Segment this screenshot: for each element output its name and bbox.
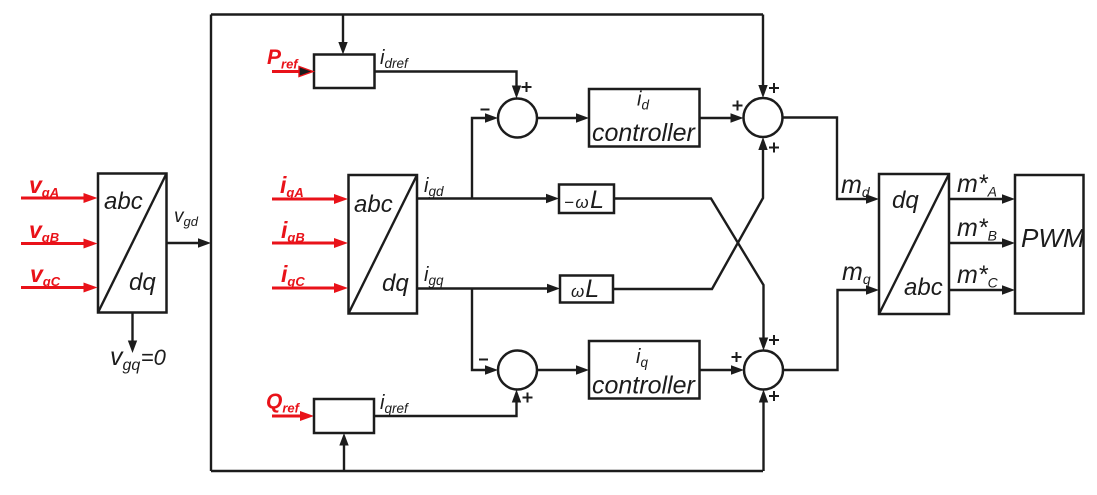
label: plus at d-output summer top <box>769 83 779 93</box>
wire: vgd feedforward loop bottom edge <box>211 470 763 472</box>
summer: d-axis output junction <box>744 98 783 137</box>
wire: vgd output into loop <box>167 238 212 247</box>
svg-text:dq: dq <box>892 187 919 214</box>
svg-text:PWM: PWM <box>1021 223 1085 253</box>
label: mq <box>842 258 871 287</box>
input Pref (red) <box>272 67 313 77</box>
wire: vgq output stub <box>128 313 137 354</box>
wire: vgd tap down into Pref divider <box>338 15 347 55</box>
label: dq (middle transform) <box>382 270 409 297</box>
wire: igq feedback branch into q-error summer <box>472 289 498 375</box>
wire: d-error summer to id controller <box>537 113 589 122</box>
input vgB (red) <box>21 239 98 249</box>
label: plus at d-error summer top <box>522 82 532 92</box>
summer: d-axis error junction <box>498 99 537 138</box>
label: PWM <box>1021 223 1085 253</box>
label: m*A <box>957 170 997 200</box>
label: plus at d-output summer left <box>733 101 743 111</box>
svg-text:controller: controller <box>592 372 696 400</box>
label: iqref <box>380 392 409 416</box>
label: vgd <box>174 206 199 229</box>
block: Qref divider <box>314 399 374 433</box>
wire: m*A to PWM <box>949 194 1015 203</box>
label: vgB <box>29 217 59 245</box>
label: m*C <box>957 261 999 291</box>
block: wL cross coupling <box>560 276 613 303</box>
wire: igq to wL block <box>417 284 560 293</box>
label: controller (d) <box>592 119 696 147</box>
svg-text:abc: abc <box>104 188 143 215</box>
label: Qref <box>266 390 301 416</box>
label: igq <box>424 264 444 288</box>
svg-text:dq: dq <box>129 269 156 296</box>
wire: wL output cross up to d-output summer <box>613 137 768 289</box>
wire: q-output summer to mq input of dq/abc <box>783 285 879 370</box>
svg-text:dq: dq <box>382 270 409 297</box>
input vgC (red) <box>21 283 98 293</box>
label: -wL <box>564 186 606 214</box>
wire: m*B to PWM <box>949 238 1015 247</box>
input igC (red) <box>272 283 348 293</box>
label: abc (left transform) <box>104 188 143 215</box>
block: left abc/dq transform <box>98 174 167 313</box>
block: PWM <box>1015 175 1084 314</box>
label: plus at q-output summer left <box>732 352 742 362</box>
wire: iqref to q-error summer <box>374 390 521 417</box>
label: igA <box>280 172 304 200</box>
wire: q-error summer to iq controller <box>537 365 589 374</box>
label: abc (middle transform) <box>354 191 393 218</box>
svg-text:abc: abc <box>904 274 943 301</box>
label: vgq=0 <box>110 343 167 374</box>
label: plus at d-output summer bottom <box>769 143 779 153</box>
wire: m*C to PWM <box>949 285 1015 294</box>
label: idref <box>380 47 409 71</box>
label: minus at d-error summer left <box>481 109 490 111</box>
label: dq (right transform) <box>892 187 919 214</box>
block: id controller <box>589 89 700 147</box>
input vgA (red) <box>21 193 98 203</box>
label: Pref <box>267 46 299 72</box>
label: plus at q-output summer bottom <box>769 391 779 401</box>
wire: igd to -wL block <box>417 194 559 203</box>
label: dq (left transform) <box>129 269 156 296</box>
label: wL <box>571 275 600 303</box>
svg-text:controller: controller <box>592 119 696 147</box>
label: vgA <box>29 172 59 200</box>
wire: igd feedback branch into d-error summer <box>472 113 498 198</box>
summer: q-axis error junction <box>498 351 537 390</box>
wire: idref to d-error summer <box>375 72 522 99</box>
label: abc (right transform) <box>904 274 943 301</box>
label: md <box>841 171 871 200</box>
wire: vgd feedforward into d-axis output summer (top) <box>758 15 767 99</box>
input Qref (red) <box>272 411 314 421</box>
wire: d-output summer to md input of dq/abc <box>783 118 880 204</box>
label: igC <box>281 261 305 289</box>
label: iq (controller) <box>636 346 648 370</box>
label: vgC <box>30 261 61 289</box>
label: plus at q-error summer bottom <box>523 393 533 403</box>
label: controller (q) <box>592 372 696 400</box>
label: m*B <box>957 214 997 244</box>
svg-text:abc: abc <box>354 191 393 218</box>
wire: vgd tap up into Qref divider <box>339 433 348 471</box>
block: middle abc/dq transform <box>349 175 418 314</box>
label: igB <box>281 217 305 245</box>
label: igd <box>424 175 444 199</box>
wire: vgd feedforward into q-axis output summer (bottom) <box>759 390 768 472</box>
wire: -wL output cross down to q-output summer <box>614 199 768 351</box>
input igA (red) <box>272 194 348 204</box>
wire: vgd feedforward loop top edge <box>211 13 763 15</box>
block: iq controller <box>589 341 700 399</box>
input igB (red) <box>272 238 348 248</box>
summer: q-axis output junction <box>744 351 783 390</box>
block: right dq/abc transform <box>879 174 949 314</box>
block: -wL cross coupling <box>559 185 614 214</box>
wire: id controller to d-output summer <box>700 113 744 122</box>
block: Pref divider <box>314 55 375 89</box>
label: minus at q-error summer left <box>479 359 488 361</box>
wire: vgd feedforward loop left edge <box>210 15 212 472</box>
wire: iq controller to q-output summer <box>700 365 745 374</box>
label: plus at q-output summer top <box>769 335 779 345</box>
label: id (controller) <box>637 89 649 113</box>
